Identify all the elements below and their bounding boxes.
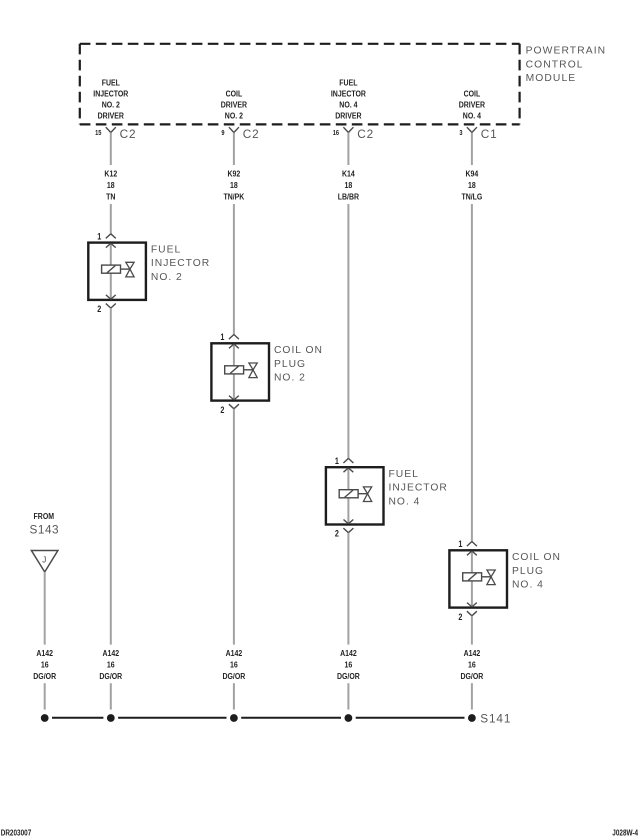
wire A142 16 DG/OR: coil-on-plug No.4 pin 2 to splice S141 <box>471 616 473 710</box>
svg-text:DG/OR: DG/OR <box>33 671 56 681</box>
node FROM S143 (off-page reference) <box>30 512 60 537</box>
svg-text:J: J <box>42 555 46 564</box>
svg-text:INJECTOR: INJECTOR <box>389 483 448 494</box>
svg-text:COIL ON: COIL ON <box>512 552 561 563</box>
svg-text:J028W-4: J028W-4 <box>612 829 638 838</box>
svg-text:C1: C1 <box>481 127 498 141</box>
svg-text:INJECTOR: INJECTOR <box>331 89 366 99</box>
svg-text:1: 1 <box>220 332 224 342</box>
svg-text:16: 16 <box>333 129 340 137</box>
svg-text:3: 3 <box>459 129 463 137</box>
svg-text:DG/OR: DG/OR <box>460 671 483 681</box>
svg-text:DG/OR: DG/OR <box>337 671 360 681</box>
svg-text:NO. 2: NO. 2 <box>102 100 121 110</box>
wire K14 18 LB/BR: PCM pin 16 to fuel injector No.4 pin 1 <box>347 133 349 459</box>
svg-text:C2: C2 <box>120 127 137 141</box>
svg-text:A142: A142 <box>340 648 357 658</box>
svg-text:16: 16 <box>345 660 353 670</box>
junction dot <box>345 714 353 722</box>
wire A142 16 DG/OR: fuel injector No.2 pin 2 to splice S141 <box>110 308 112 709</box>
svg-text:K14: K14 <box>342 169 355 179</box>
svg-text:16: 16 <box>41 660 49 670</box>
fuel injector No.2 pin 2 connector chevron <box>106 304 116 309</box>
wire label A142 16 DG/OR <box>222 648 245 681</box>
svg-text:9: 9 <box>221 129 225 137</box>
svg-text:TN/PK: TN/PK <box>223 192 244 202</box>
svg-text:MODULE: MODULE <box>526 73 577 84</box>
wire label A142 16 DG/OR <box>337 648 360 681</box>
svg-text:18: 18 <box>468 180 476 190</box>
svg-text:NO. 2: NO. 2 <box>274 373 306 384</box>
svg-text:DR203007: DR203007 <box>1 829 32 838</box>
svg-text:NO. 4: NO. 4 <box>512 580 544 591</box>
svg-text:NO. 4: NO. 4 <box>463 111 482 121</box>
svg-text:DG/OR: DG/OR <box>99 671 122 681</box>
component label: COIL ON PLUG NO. 2 <box>274 345 323 383</box>
powertrain control module PCM (dashed outline box) <box>80 44 520 125</box>
svg-text:1: 1 <box>97 232 101 242</box>
svg-text:C2: C2 <box>357 127 374 141</box>
svg-text:TN: TN <box>106 192 116 202</box>
coil-on-plug No.4 pin 1 connector chevron <box>467 542 477 547</box>
svg-text:K94: K94 <box>466 169 479 179</box>
svg-text:PLUG: PLUG <box>512 566 544 577</box>
wire label K12 18 TN <box>104 169 117 202</box>
svg-text:K12: K12 <box>104 169 117 179</box>
svg-text:2: 2 <box>458 612 462 622</box>
wire K12 18 TN: PCM pin 15 to fuel injector No.2 pin 1 <box>110 133 112 234</box>
fuel injector No.2 (component box with solenoid and valve symbol) <box>88 243 146 300</box>
svg-text:CONTROL: CONTROL <box>526 59 584 70</box>
svg-text:NO. 4: NO. 4 <box>339 100 358 110</box>
svg-text:DG/OR: DG/OR <box>222 671 245 681</box>
svg-text:18: 18 <box>345 180 353 190</box>
junction dot <box>468 714 476 722</box>
svg-text:2: 2 <box>97 304 101 314</box>
coil-on-plug No.4 pin 2 connector chevron <box>467 611 477 616</box>
fuel injector No.4 pin 1 connector chevron <box>343 458 353 463</box>
svg-text:FUEL: FUEL <box>102 78 120 88</box>
wire label K94 18 TN/LG <box>461 169 482 202</box>
svg-text:18: 18 <box>230 180 238 190</box>
svg-text:A142: A142 <box>36 648 53 658</box>
svg-text:POWERTRAIN: POWERTRAIN <box>526 45 607 56</box>
coil-on-plug No.2 (component box with solenoid and valve symbol) <box>211 343 269 400</box>
wire label K14 18 LB/BR <box>338 169 360 202</box>
svg-text:2: 2 <box>220 405 224 415</box>
component label: FUEL INJECTOR NO. 4 <box>389 469 448 507</box>
junction dot <box>107 714 115 722</box>
svg-text:FUEL: FUEL <box>339 78 357 88</box>
svg-text:PLUG: PLUG <box>274 359 306 370</box>
PCM output label: FUEL INJECTOR NO. 4 DRIVER <box>331 78 366 121</box>
coil-on-plug No.2 pin 2 connector chevron <box>229 404 239 409</box>
svg-text:LB/BR: LB/BR <box>338 192 360 202</box>
component label: FUEL INJECTOR NO. 2 <box>151 244 210 282</box>
svg-text:DRIVER: DRIVER <box>459 100 486 110</box>
svg-text:A142: A142 <box>464 648 481 658</box>
svg-text:1: 1 <box>458 539 462 549</box>
coil-on-plug No.4 (component box with solenoid and valve symbol) <box>449 550 507 607</box>
svg-text:A142: A142 <box>102 648 119 658</box>
svg-text:DRIVER: DRIVER <box>221 100 248 110</box>
svg-text:K92: K92 <box>228 169 241 179</box>
connector C1 pin 3 at PCM <box>467 127 477 132</box>
wire A142 16 DG/OR: S143 to splice S141 <box>44 572 46 710</box>
svg-text:16: 16 <box>107 660 115 670</box>
coil-on-plug No.2 pin 1 connector chevron <box>229 335 239 340</box>
svg-text:S141: S141 <box>480 711 511 725</box>
wire K92 18 TN/PK: PCM pin 9 to coil-on-plug No.2 pin 1 <box>233 133 235 335</box>
wire K94 18 TN/LG: PCM pin 3 to coil-on-plug No.4 pin 1 <box>471 133 473 542</box>
off-page connector triangle J <box>31 551 58 573</box>
svg-text:1: 1 <box>335 456 339 466</box>
svg-text:FROM: FROM <box>34 512 55 522</box>
svg-text:FUEL: FUEL <box>151 244 181 255</box>
svg-text:INJECTOR: INJECTOR <box>151 258 210 269</box>
wire label A142 16 DG/OR <box>460 648 483 681</box>
svg-text:NO. 4: NO. 4 <box>389 496 421 507</box>
svg-text:S143: S143 <box>30 523 60 537</box>
fuel injector No.2 pin 1 connector chevron <box>106 234 116 239</box>
component label: COIL ON PLUG NO. 4 <box>512 552 561 590</box>
wire A142 16 DG/OR: fuel injector No.4 pin 2 to splice S141 <box>347 533 349 710</box>
PCM output label: COIL DRIVER NO. 2 <box>221 89 248 121</box>
svg-text:DRIVER: DRIVER <box>335 111 362 121</box>
fuel injector No.4 (component box with solenoid and valve symbol) <box>326 467 384 524</box>
svg-text:COIL: COIL <box>464 89 481 99</box>
svg-text:COIL: COIL <box>226 89 243 99</box>
PCM name label POWERTRAIN CONTROL MODULE <box>526 45 607 84</box>
svg-text:C2: C2 <box>243 127 260 141</box>
connector C2 pin 16 at PCM <box>343 127 353 132</box>
junction dot <box>230 714 238 722</box>
svg-text:2: 2 <box>335 529 339 539</box>
svg-text:NO. 2: NO. 2 <box>225 111 244 121</box>
connector C2 pin 9 at PCM <box>229 127 239 132</box>
svg-text:A142: A142 <box>226 648 243 658</box>
PCM output label: FUEL INJECTOR NO. 2 DRIVER <box>93 78 128 121</box>
svg-text:18: 18 <box>107 180 115 190</box>
splice S141 bus wire (segments between junction dots) <box>52 717 465 719</box>
svg-text:FUEL: FUEL <box>389 469 419 480</box>
wire A142 16 DG/OR: coil-on-plug No.2 pin 2 to splice S141 <box>233 409 235 710</box>
svg-text:DRIVER: DRIVER <box>98 111 125 121</box>
svg-text:NO. 2: NO. 2 <box>151 272 183 283</box>
svg-text:INJECTOR: INJECTOR <box>93 89 128 99</box>
wire label K92 18 TN/PK <box>223 169 244 202</box>
svg-text:15: 15 <box>95 129 102 137</box>
fuel injector No.4 pin 2 connector chevron <box>343 528 353 533</box>
wire label A142 16 DG/OR <box>33 648 56 681</box>
PCM output label: COIL DRIVER NO. 4 <box>459 89 486 121</box>
svg-text:16: 16 <box>230 660 238 670</box>
svg-text:TN/LG: TN/LG <box>461 192 482 202</box>
svg-text:16: 16 <box>468 660 476 670</box>
svg-text:COIL ON: COIL ON <box>274 345 323 356</box>
connector C2 pin 15 at PCM <box>106 127 116 132</box>
wire label A142 16 DG/OR <box>99 648 122 681</box>
junction dot <box>41 714 49 722</box>
